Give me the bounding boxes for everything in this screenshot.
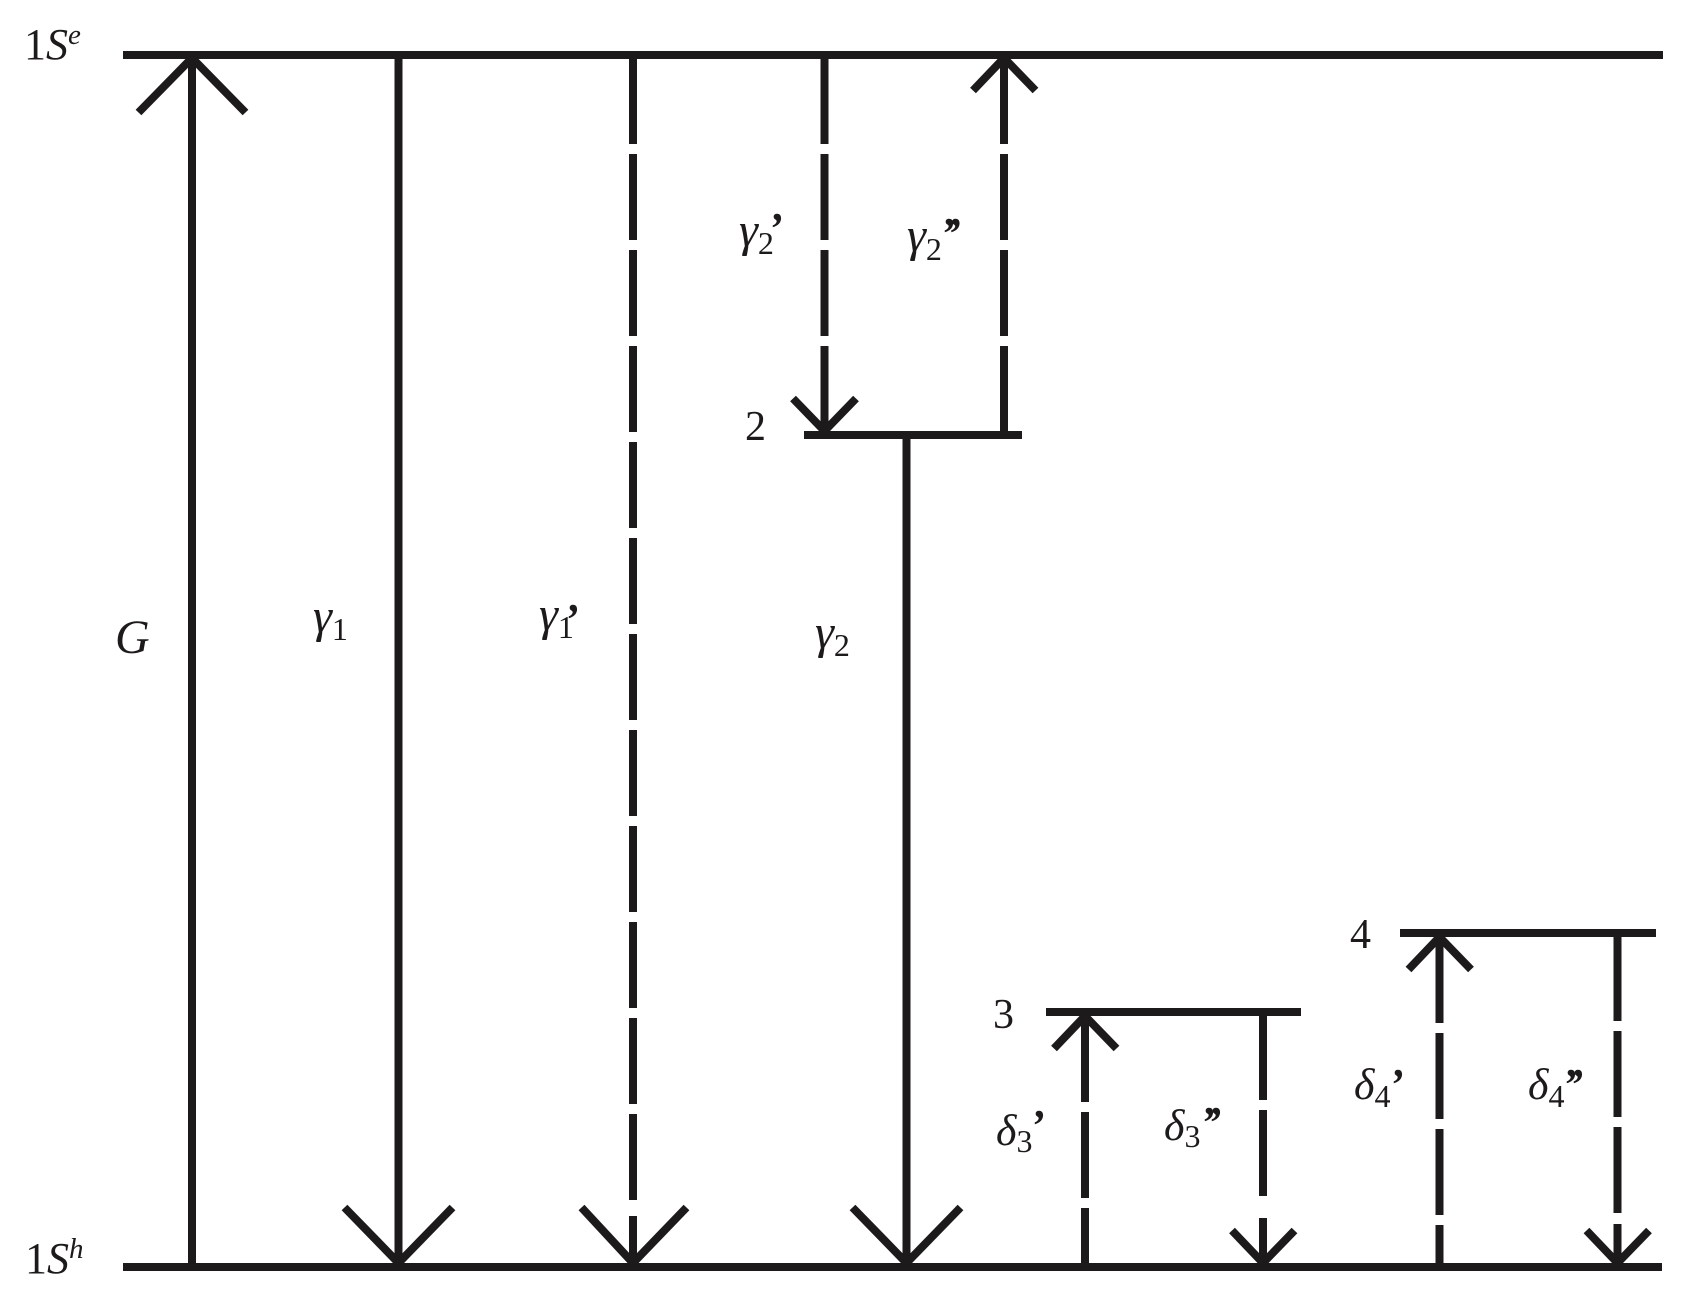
svg-text:’: ’ xyxy=(564,595,579,644)
svg-text:4: 4 xyxy=(1350,912,1371,958)
arrow gamma2' shaft (dashed down) xyxy=(821,58,829,431)
arrow delta4'' head xyxy=(1587,1224,1650,1263)
svg-text:3: 3 xyxy=(993,992,1014,1038)
svg-text:’: ’ xyxy=(1030,1101,1045,1150)
arrow gamma2 shaft (solid down) xyxy=(903,437,911,1263)
arrow delta4' shaft (dashed up) xyxy=(1436,937,1444,1263)
arrow G head xyxy=(139,58,246,113)
svg-text:G: G xyxy=(115,611,150,664)
svg-text:’: ’ xyxy=(1569,1060,1584,1109)
arrow delta4' head xyxy=(1409,937,1472,970)
arrow delta3'' shaft (dashed down) xyxy=(1259,1014,1267,1200)
arrow delta4'' shaft (dashed down) xyxy=(1614,935,1622,1215)
level 1Se top line xyxy=(123,51,1663,59)
level 2 line xyxy=(804,431,1022,439)
arrow gamma1' shaft (dashed down) xyxy=(629,58,637,1205)
arrow gamma2' head xyxy=(793,392,856,431)
arrow gamma2'' head xyxy=(973,58,1036,91)
svg-text:’: ’ xyxy=(768,204,783,253)
svg-text:’: ’ xyxy=(1389,1060,1404,1109)
arrow G shaft (solid up) xyxy=(188,58,196,1263)
arrow gamma1' head xyxy=(582,1208,687,1264)
arrow delta3' shaft (dashed up) xyxy=(1081,1016,1089,1263)
svg-text:’: ’ xyxy=(1207,1098,1222,1147)
arrow gamma2'' shaft (dashed up) xyxy=(1000,58,1008,431)
level 4 line xyxy=(1400,929,1656,937)
level 3 line xyxy=(1046,1008,1301,1016)
arrow gamma2 head xyxy=(853,1208,961,1264)
arrow gamma1 shaft (solid down) xyxy=(395,58,403,1263)
svg-text:2: 2 xyxy=(745,404,766,450)
arrow gamma1 head xyxy=(345,1208,453,1264)
level 1Sh bottom line xyxy=(123,1263,1662,1271)
svg-text:’: ’ xyxy=(947,209,962,258)
arrow delta3' head xyxy=(1054,1016,1117,1049)
arrow delta3'' head xyxy=(1232,1218,1295,1263)
